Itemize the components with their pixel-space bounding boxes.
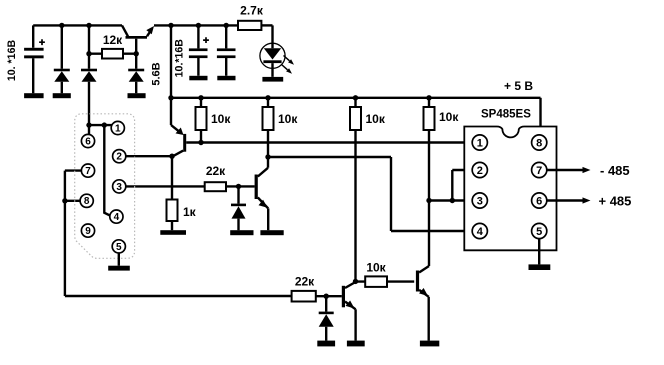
node DB9 junction a: [86, 122, 91, 127]
diode D1: [54, 25, 70, 93]
wire DI horizontal: [268, 156, 391, 158]
ground LED: [262, 77, 283, 82]
svg-text:22к: 22к: [295, 275, 315, 289]
op-amp U1 SP485ES body: [464, 127, 556, 251]
wire RO to pin1: [186, 141, 472, 143]
wire DB9 pin7: [65, 169, 82, 171]
svg-text:+ 485: + 485: [599, 194, 632, 209]
svg-text:9: 9: [85, 226, 91, 237]
node rail D1: [59, 23, 64, 28]
resistor R3 10k: [350, 98, 386, 282]
wire RE-DE vertical: [451, 170, 453, 201]
svg-text:12к: 12к: [103, 33, 123, 47]
svg-text:1: 1: [477, 137, 483, 149]
node 5V R3: [353, 95, 358, 100]
ground DB9 pin5: [108, 266, 130, 271]
svg-text:4: 4: [114, 212, 120, 223]
transistor Q2: [255, 157, 269, 230]
node 5V start: [168, 95, 173, 100]
resistor 2.7k: [238, 4, 273, 31]
svg-text:7: 7: [536, 165, 542, 177]
DB9 pin 9: [81, 224, 94, 237]
svg-text:1: 1: [115, 123, 121, 134]
transistor T1: [122, 25, 154, 53]
svg-text:8: 8: [84, 196, 90, 207]
ground C1: [24, 93, 43, 98]
svg-text:3: 3: [477, 195, 483, 207]
ground IC pin5: [529, 264, 551, 270]
node 12k right: [134, 51, 139, 56]
node rail C2: [196, 23, 201, 28]
IC pin 6: [532, 193, 547, 208]
node 5V R2: [265, 95, 270, 100]
IC pin 3: [472, 193, 487, 208]
zener 5.6B: [128, 54, 162, 93]
LED: [260, 25, 294, 77]
svg-text:2: 2: [116, 152, 122, 163]
wire DB9 pin2: [125, 155, 172, 157]
wire +5V rail: [171, 97, 541, 99]
node 5V R1: [198, 95, 203, 100]
wire bottom to 22k: [65, 295, 292, 297]
wire vertical 5V feed: [170, 25, 172, 125]
ground 1k: [160, 230, 186, 235]
diode D2: [81, 25, 97, 125]
node Q1 collector: [169, 154, 174, 159]
svg-text:8: 8: [536, 137, 542, 149]
ground zener 5.6B: [128, 93, 146, 98]
ground zener D4: [317, 341, 335, 347]
IC pin 4: [472, 223, 487, 238]
svg-text:10к: 10к: [278, 112, 298, 126]
svg-text:10к: 10к: [366, 112, 386, 126]
wire IC pin5 ground: [538, 239, 540, 265]
node RE-DE up: [450, 198, 455, 203]
wire DB9 pin1 to pin4: [104, 125, 110, 216]
capacitor C1 10.*16B: [6, 25, 45, 93]
ground zener D3: [230, 230, 253, 235]
resistor R2 10k: [263, 98, 299, 157]
ground C3: [217, 76, 235, 81]
wire DB9 pin1 link: [89, 124, 112, 126]
ground D1: [53, 93, 71, 98]
svg-text:1к: 1к: [183, 205, 197, 219]
ground Q4: [420, 341, 439, 347]
wire top rail right: [154, 24, 239, 26]
node rail drop: [168, 23, 173, 28]
resistor 10k bottom: [356, 261, 415, 287]
svg-text:6: 6: [536, 195, 542, 207]
svg-text:3: 3: [116, 182, 122, 193]
svg-text:10. *16В: 10. *16В: [6, 40, 18, 82]
capacitor C2 10.*16B: [173, 25, 209, 77]
node rail D2: [86, 23, 91, 28]
svg-text:5: 5: [116, 242, 122, 253]
svg-text:+ 5 В: + 5 В: [504, 79, 533, 93]
resistor R4 10k: [424, 98, 460, 266]
node Q2 base: [236, 184, 241, 189]
DB9 pin 1: [111, 121, 124, 134]
DB9 connector outline: [75, 114, 135, 258]
node pins 7-8: [62, 198, 67, 203]
resistor 1k: [167, 200, 197, 231]
svg-text:- 485: - 485: [600, 163, 630, 178]
wire stub pin2 IC: [452, 169, 472, 171]
wire pins 7-8 vertical: [64, 171, 66, 296]
transistor Q3: [342, 282, 356, 341]
transistor Q1 PNP: [171, 125, 186, 156]
svg-text:5.6В: 5.6В: [151, 62, 163, 85]
svg-text:10к: 10к: [211, 112, 231, 126]
resistor 22k: [205, 164, 255, 191]
wire to 1k: [171, 156, 173, 199]
wire DI to pin4: [391, 230, 472, 232]
ground Q2: [260, 230, 283, 235]
svg-text:5: 5: [536, 226, 542, 238]
wire DB9 pin6 stub: [88, 125, 90, 135]
svg-text:7: 7: [85, 166, 91, 177]
svg-text:10к: 10к: [439, 110, 459, 124]
wire DB9 pin5 ground: [118, 253, 120, 266]
node 12k left: [86, 51, 91, 56]
DB9 pin 8: [80, 194, 93, 207]
wire DB9 pin3 to 22k: [125, 185, 205, 187]
resistor 22k bottom: [292, 275, 342, 302]
resistor R1 10k: [196, 98, 232, 143]
resistor 12k: [89, 33, 136, 59]
IC pin 2: [472, 162, 487, 177]
wire pin6 out: [547, 199, 584, 201]
zener D4: [319, 296, 334, 340]
svg-text:6: 6: [85, 136, 91, 147]
zener D3: [231, 186, 246, 230]
ground C2: [189, 76, 207, 81]
svg-text:2: 2: [477, 165, 483, 177]
svg-text:2.7к: 2.7к: [240, 4, 264, 18]
svg-text:SP485ES: SP485ES: [481, 109, 531, 121]
DB9 pin 3: [113, 180, 126, 193]
wire DI vertical: [390, 157, 392, 231]
node RE-DE R4: [426, 198, 431, 203]
svg-text:4: 4: [477, 226, 484, 238]
ground Q3: [347, 341, 365, 347]
capacitor C3: [217, 25, 236, 75]
svg-text:10к: 10к: [366, 261, 386, 275]
node Q3 base: [324, 294, 329, 299]
DB9 pin 7: [81, 164, 94, 177]
svg-text:22к: 22к: [206, 164, 226, 178]
DB9 pin 4: [110, 210, 123, 223]
node rail C3: [224, 23, 229, 28]
wire drop to IC pin8: [539, 98, 541, 135]
wire RE-DE to pin3: [429, 199, 472, 201]
node Q3 collector: [353, 279, 358, 284]
DB9 pin 5: [112, 240, 125, 253]
svg-text:10.*16В: 10.*16В: [173, 39, 185, 78]
IC pin 7: [532, 162, 547, 177]
DB9 pin 6: [81, 134, 94, 147]
IC pin 1: [472, 135, 487, 150]
node DI R2: [265, 154, 270, 159]
wire top rail left: [33, 24, 122, 26]
wire pin7 out: [547, 169, 584, 171]
node DB9 junction b: [102, 122, 107, 127]
wire DB9 pin8: [65, 200, 81, 202]
node RO R1: [198, 140, 203, 145]
node 5V R4: [426, 95, 431, 100]
transistor Q4: [416, 266, 429, 341]
IC pin 8: [532, 135, 547, 150]
DB9 pin 2: [113, 150, 126, 163]
IC pin 5: [532, 223, 547, 238]
